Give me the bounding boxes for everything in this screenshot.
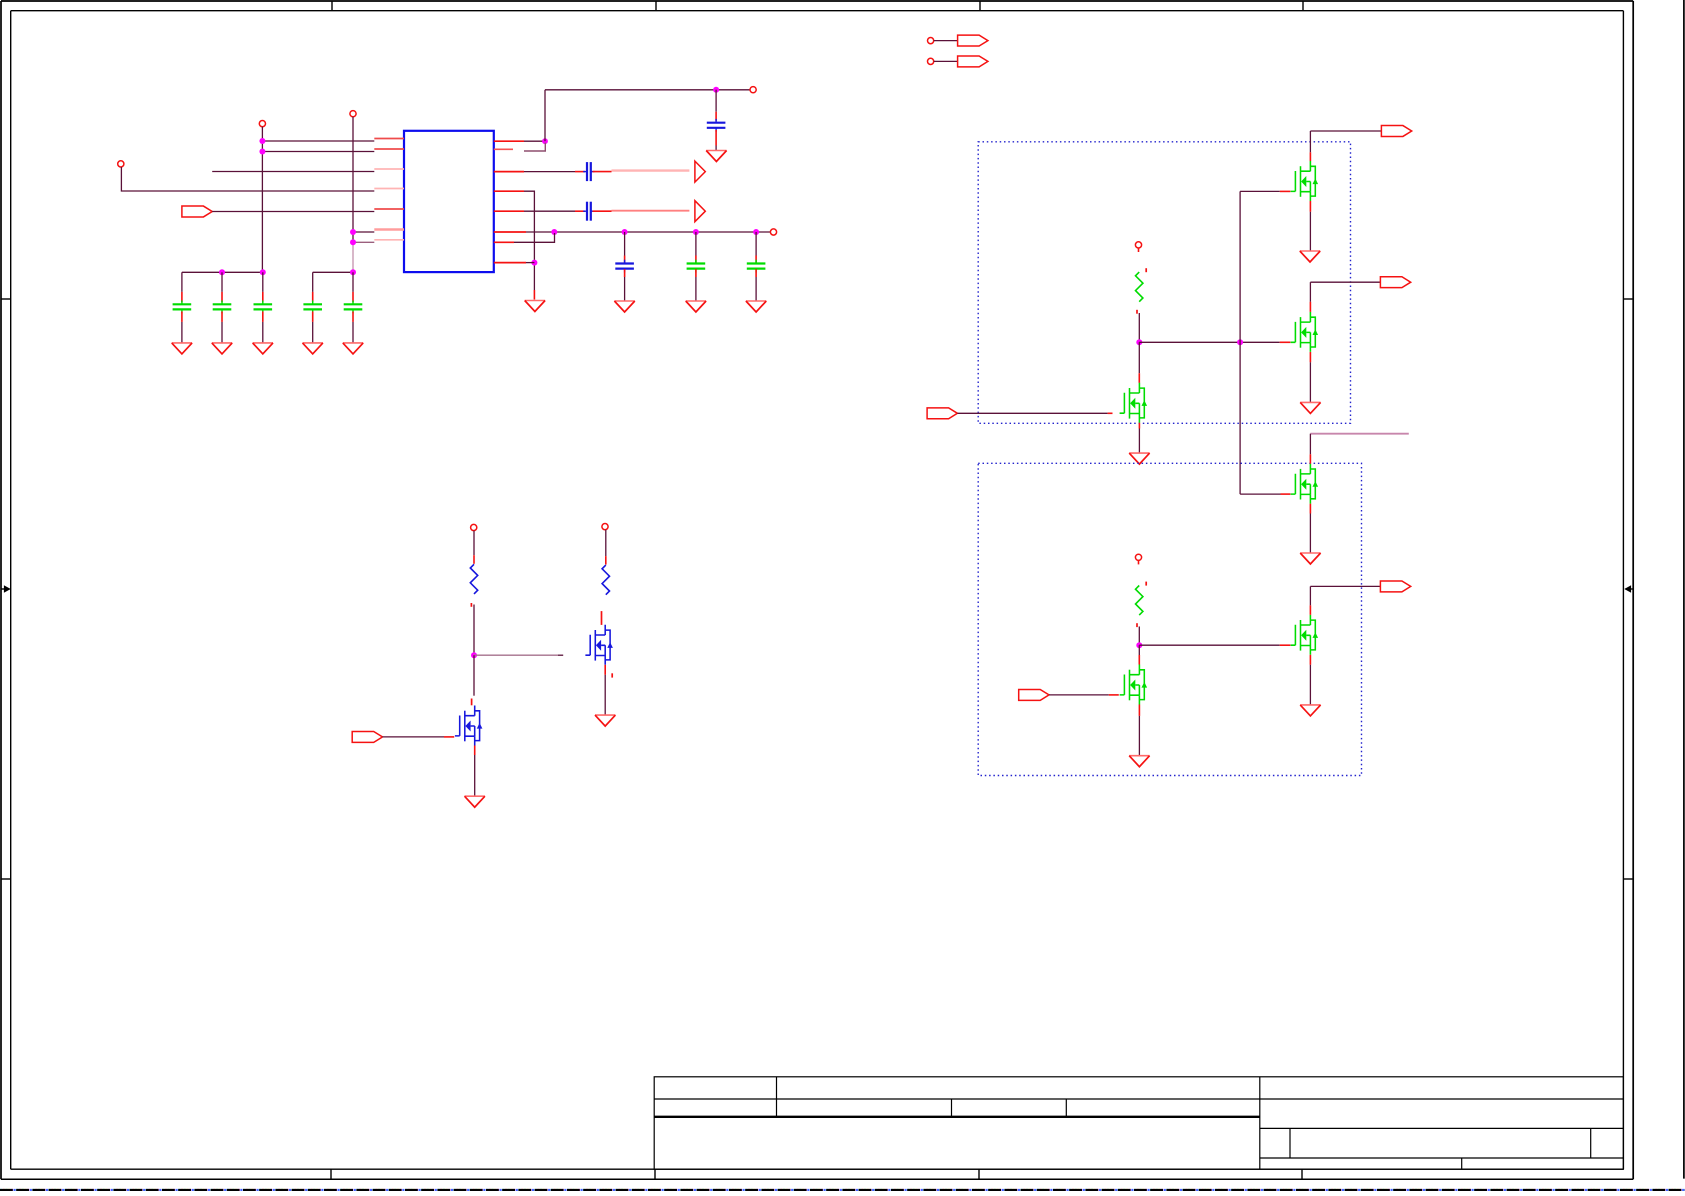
border page edge lines	[1683, 0, 1685, 1179]
wire U1 pin 2	[262, 151, 374, 153]
capacitor C3	[262, 272, 264, 292]
wire G4 to Q7 gate	[383, 736, 445, 738]
flag G4 input	[352, 731, 382, 742]
op-amp U1 body	[404, 131, 494, 272]
ground under Q4	[1300, 553, 1320, 564]
wire Q1 drain to flag F1	[1309, 152, 1311, 161]
wire U1 right pin 2 hook	[494, 148, 513, 150]
wire Q8 source	[604, 665, 606, 675]
flag G2 input	[1019, 689, 1049, 700]
wire U1 right pin 4 down to ground	[494, 190, 524, 192]
transistor Q4	[1291, 464, 1319, 504]
capacitor C10	[695, 232, 697, 256]
border centerline arrow right	[1626, 588, 1634, 590]
pin circle P7	[1135, 554, 1141, 560]
ground under C9	[614, 301, 634, 312]
wire R2 bottom	[1138, 627, 1140, 646]
wire T2	[934, 60, 958, 62]
pin circle P5	[770, 229, 776, 235]
wire Q7 source	[474, 746, 476, 756]
node junction J4	[471, 652, 477, 658]
flag G3 input	[182, 206, 212, 217]
ground under Q1	[1300, 251, 1320, 262]
wire Q1 source	[1309, 201, 1311, 212]
dashed group box 1	[978, 142, 1350, 424]
net pale rail Q4 drain	[1310, 433, 1408, 435]
wire U1 right pin 7 hook	[494, 241, 514, 243]
transistor Q6	[1291, 615, 1319, 655]
wire U1 right pin 6 VOUT rail	[494, 231, 526, 233]
wire Q3 source to ground	[1138, 423, 1140, 429]
wire J4 to Q8 gate	[474, 654, 558, 656]
border centerline arrow left	[1, 588, 10, 590]
node junction A3	[350, 229, 356, 235]
node junction A1	[259, 138, 265, 144]
flag F3	[1380, 581, 1410, 592]
wire Q4 drain	[1309, 434, 1311, 455]
node junction R2n	[713, 87, 719, 93]
wire Q1 gate net vertical	[1239, 191, 1241, 494]
wire J4 down to Q7 drain	[473, 655, 475, 696]
wire R3 bottom	[473, 605, 475, 656]
wire Q6 drain to flag F3	[1309, 605, 1311, 615]
wire U1 right pin 5 to C8	[494, 210, 524, 212]
wire C7 out	[593, 171, 612, 173]
node junction A4	[350, 239, 356, 245]
wire gate rail box1	[1139, 341, 1279, 343]
node junction B1	[219, 269, 225, 275]
node junction J3	[1136, 642, 1142, 648]
wire Q5 source	[1138, 705, 1140, 716]
wire R4 to Q8 drain	[601, 611, 603, 625]
pin circle P2	[259, 121, 265, 127]
wire Q2 source	[1309, 352, 1311, 362]
capacitor C1	[181, 272, 183, 292]
flag F2	[1380, 277, 1410, 288]
node junction R6n	[693, 229, 699, 235]
pin circle P3	[350, 111, 356, 117]
ground under Q2	[1300, 402, 1320, 413]
wire G1 to Q3 gate	[957, 412, 1107, 414]
transistor Q5	[1120, 665, 1148, 705]
flag F1	[1381, 126, 1411, 137]
capacitor C6	[715, 90, 717, 112]
capacitor C7 series	[583, 162, 594, 181]
ground under Q3	[1129, 453, 1149, 464]
capacitor C5	[352, 272, 354, 292]
net pale line row3	[612, 169, 690, 171]
capacitor C2	[221, 272, 223, 292]
capacitor C4	[312, 272, 314, 292]
wire Q4 source	[1309, 504, 1311, 514]
title block	[654, 1077, 1623, 1169]
capacitor C11	[755, 232, 757, 256]
transistor Q3	[1120, 383, 1148, 423]
ground under C1	[172, 343, 192, 354]
ground under C2	[212, 343, 232, 354]
transistor Q8	[585, 625, 613, 665]
ground under C6	[706, 151, 726, 162]
ground under Q5	[1129, 756, 1149, 767]
pin circle T1	[928, 38, 934, 44]
resistor R4	[605, 530, 607, 556]
node junction R5n	[622, 229, 628, 235]
wire G2 to Q5 gate	[1049, 694, 1109, 696]
flag G1 input	[927, 408, 957, 419]
wire gate rail box2	[1139, 644, 1279, 646]
wire P3 vertical pale segment	[352, 242, 354, 272]
wire U1 pin 6	[353, 231, 374, 233]
ground under C10	[686, 301, 706, 312]
wire Q6 source	[1309, 655, 1311, 665]
transistor Q2	[1291, 312, 1319, 352]
dashed group box 2	[978, 463, 1361, 775]
node junction B2	[260, 269, 266, 275]
pin circle P1	[118, 161, 124, 167]
ground under Q7	[465, 796, 485, 807]
wire R1 bottom	[1138, 313, 1140, 342]
pin circle P4	[750, 87, 756, 93]
capacitor C9	[624, 232, 626, 256]
net pink line row5	[612, 210, 690, 212]
wire P3 vertical	[352, 117, 354, 243]
wire cap bus 2	[313, 271, 353, 273]
ground under C5	[343, 343, 363, 354]
wire U1 right pin 3 to C7	[494, 171, 524, 173]
resistor R1	[1138, 248, 1140, 252]
capacitor C8 series	[583, 202, 594, 221]
wire J1 down to Q3 drain	[1138, 342, 1140, 373]
node junction R3n	[531, 260, 537, 266]
pin stubs U1 left side	[374, 139, 404, 240]
transistor Q7	[455, 706, 483, 746]
node junction R1n	[542, 138, 548, 144]
ground under C4	[303, 343, 323, 354]
node junction B3	[350, 269, 356, 275]
wire P1 to U1 pin 4	[121, 167, 374, 191]
wire Q1 gate horizontal	[1240, 190, 1280, 192]
pin circle P8	[471, 524, 477, 530]
ground under C3	[253, 343, 273, 354]
ground under Q8	[595, 715, 615, 726]
ground under U1	[525, 301, 545, 312]
wire T1	[934, 40, 958, 42]
wire U1 pin 5 from flag G3	[212, 211, 374, 213]
ground under Q6	[1300, 705, 1320, 716]
flag T1	[958, 35, 988, 46]
wire VDD rail	[545, 89, 750, 91]
wire U1 right pin 8	[494, 262, 526, 264]
ground under C11	[746, 301, 766, 312]
resistor R3	[473, 531, 475, 556]
pin circle T2	[928, 58, 934, 64]
resistor R2	[1138, 560, 1140, 564]
wire P2 vertical to cap bus	[261, 127, 263, 273]
wire U1 right pin 1	[494, 140, 524, 142]
pin circle P9	[602, 524, 608, 530]
wire C8 out	[593, 210, 612, 212]
node junction R7n	[753, 229, 759, 235]
net arrow A1	[695, 161, 705, 182]
node junction A2	[259, 149, 265, 155]
transistor Q1	[1291, 161, 1319, 201]
wire U1 pin 1	[262, 140, 374, 142]
wire J3 down to Q5 drain	[1138, 645, 1140, 655]
wire U1 pin 3	[212, 171, 374, 173]
pin circle P6	[1135, 242, 1141, 248]
node junction J2	[1237, 339, 1243, 345]
node junction J1	[1136, 339, 1142, 345]
node junction R4n	[551, 229, 557, 235]
wire cap bus 1	[182, 271, 263, 273]
net arrow A2	[695, 201, 705, 222]
wire vertical to VDD rail	[544, 90, 546, 141]
wire Q2 drain to flag F2	[1309, 302, 1311, 312]
wire Q4 gate corner	[1240, 493, 1280, 495]
wire U1 pin 7 pale	[353, 241, 374, 243]
flag T2	[958, 56, 988, 67]
